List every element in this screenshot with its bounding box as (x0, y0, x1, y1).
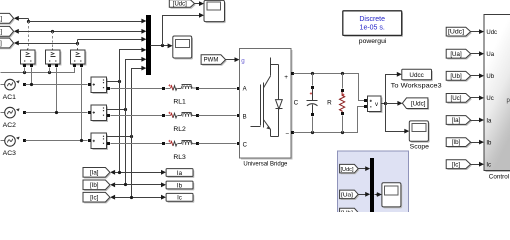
svg-text:[Ub]: [Ub] (341, 211, 354, 212)
goto tag [Ub] (left edge, clipped) (0, 26, 15, 37)
goto tag [Ib] (bottom) (83, 180, 111, 191)
from tag [Ia] (right column) (446, 116, 472, 126)
svg-text:powergui: powergui (359, 38, 387, 45)
from tag [Udc] (lavender) (340, 164, 360, 174)
svg-text:Ic: Ic (486, 163, 491, 169)
wire DC plus rail (294, 72, 365, 101)
to workspace Ia (166, 169, 194, 178)
from tag [Ua] (right column) (446, 49, 472, 59)
wire I2 signal output (107, 108, 128, 111)
goto tag [Ia] (bottom) (83, 168, 111, 179)
svg-text:PWM: PWM (204, 58, 219, 64)
series RL branch RL2 (111, 112, 241, 133)
svg-text:A: A (243, 87, 247, 93)
from tag [Ic] (right column) (446, 160, 472, 170)
powergui block (343, 11, 403, 45)
wire [Ia] to Control Ia (471, 118, 485, 123)
wire V1 plus to phase A (30, 68, 33, 87)
wire Ia vertical riser (120, 48, 147, 173)
svg-text:[Ua]: [Ua] (341, 192, 354, 198)
wire [Ib] to Control Ib (471, 140, 485, 145)
svg-text:[Ub]: [Ub] (0, 29, 2, 35)
annotation area (lavender) (338, 151, 409, 213)
svg-text:[Ub]: [Ub] (450, 73, 462, 80)
goto tag [Udc] (right) (402, 98, 429, 110)
AC voltage source AC1 (1, 79, 88, 101)
svg-text:Uc: Uc (486, 96, 493, 102)
from tag [Udc] (right column) (446, 27, 472, 37)
wire V3 plus to phase C (80, 68, 83, 143)
dashed measurement line V2 (52, 32, 54, 49)
to workspace Ic (166, 193, 194, 202)
dashed measurement line V3 (77, 44, 79, 49)
svg-text:g: g (241, 58, 245, 65)
from tag [Uc] (right column) (446, 94, 472, 104)
svg-text:AC2: AC2 (3, 122, 16, 129)
scope Scope1 (2 inputs) (204, 0, 226, 23)
svg-text:[Ia]: [Ia] (90, 169, 99, 176)
dashed measurement line V1 (28, 22, 30, 49)
scope Scope2 (173, 36, 193, 60)
svg-text:RL1: RL1 (173, 98, 186, 105)
svg-text:AC3: AC3 (3, 150, 16, 157)
svg-text:Universal Bridge: Universal Bridge (243, 160, 287, 167)
from tag PWM (201, 55, 227, 66)
wire V2 plus to phase B (55, 68, 58, 115)
wire I3 signal output (107, 135, 134, 138)
svg-text:[Ib]: [Ib] (452, 139, 461, 146)
svg-text:[Udc]: [Udc] (448, 29, 464, 36)
current measurement I1 (88, 77, 110, 94)
wire [Udc] to Scope1 (195, 1, 205, 6)
wire Ib vertical riser (126, 57, 147, 185)
current measurement I2 (88, 105, 110, 122)
wire mux output to scopes (151, 13, 205, 48)
svg-text:+: + (284, 74, 288, 81)
wire [Udc] to Control Udc (471, 29, 485, 34)
svg-text:Ia: Ia (486, 118, 492, 124)
wire Ia to goto and workspace (110, 170, 166, 175)
wire [Ua] to Control Ua (471, 51, 485, 56)
wire Ib to goto and workspace (110, 182, 166, 187)
capacitor C (294, 74, 318, 133)
wire [Udc] to mux2 (359, 166, 371, 171)
svg-text:[Uc]: [Uc] (0, 41, 2, 47)
wire Ub: measurement V2 output to goto [Ub] and mux (14, 29, 147, 34)
AC voltage source AC3 (1, 136, 88, 158)
svg-text:[Ia]: [Ia] (452, 117, 461, 124)
svg-text:C: C (294, 100, 299, 107)
svg-text:RL2: RL2 (173, 126, 186, 133)
subsystem Control (484, 14, 510, 180)
svg-text:Scope: Scope (410, 144, 429, 151)
svg-text:Ub: Ub (486, 74, 494, 80)
wire [Ic] to Control Ic (471, 162, 485, 167)
svg-text:p: p (507, 98, 510, 104)
scope (lavender) (382, 183, 402, 209)
goto tag [Ua] (left edge, clipped) (0, 13, 15, 24)
svg-text:Udc: Udc (486, 30, 497, 36)
svg-text:[Ib]: [Ib] (90, 182, 99, 189)
wire to To Workspace3 (386, 72, 402, 104)
svg-text:[Udc]: [Udc] (411, 100, 426, 107)
neutral wire (1, 68, 75, 75)
wire [Ua] to mux2 (359, 192, 371, 197)
scope Scope (Udc) (409, 121, 429, 151)
svg-text:[Ic]: [Ic] (452, 161, 461, 168)
svg-text:[Udc]: [Udc] (173, 2, 187, 8)
universal bridge (IGBT/diode) (240, 49, 295, 168)
wire V2 minus to neutral (49, 68, 51, 73)
svg-text:Control: Control (489, 174, 509, 181)
voltage measurement Udc (364, 96, 382, 113)
wire PWM to bridge gate (226, 57, 240, 62)
mux2 (370, 158, 374, 213)
from tag [Ub] (right column) (446, 71, 472, 81)
wire mux2 to scope (375, 192, 382, 197)
wire Ua: measurement V1 output to goto [Ua] and mux (14, 16, 147, 24)
svg-text:[Ua]: [Ua] (0, 16, 2, 22)
wire Udc measurement output (382, 102, 388, 105)
from tag [Ub] (lavender, clipped) (340, 208, 360, 218)
series RL branch RL1 (111, 84, 241, 105)
svg-text:[Ua]: [Ua] (450, 51, 462, 58)
goto tag [Ic] (bottom) (83, 192, 111, 203)
wire V1 minus to neutral (24, 68, 26, 73)
svg-text:R: R (327, 99, 332, 106)
voltage measurement V3 (71, 49, 87, 68)
from tag [Udc] (top) (169, 0, 195, 9)
svg-text:[Uc]: [Uc] (450, 95, 461, 102)
resistor R (327, 74, 345, 133)
wire to Scope (386, 104, 410, 134)
to workspace Udcc (391, 69, 443, 89)
voltage measurement V1 (21, 49, 37, 68)
wire I1 signal output (107, 80, 122, 83)
wire DC minus rail (294, 107, 365, 135)
svg-text:RL3: RL3 (173, 154, 186, 161)
mux (6 inputs) (146, 15, 151, 75)
wire [Uc] to Control Uc (471, 96, 485, 101)
svg-text:B: B (243, 114, 247, 120)
wire [Ub] to Control Ub (471, 73, 485, 78)
wire Ic to goto and workspace (110, 195, 166, 200)
to workspace Ib (166, 181, 194, 190)
AC voltage source AC2 (1, 107, 88, 129)
svg-text:1e-05 s.: 1e-05 s. (360, 25, 385, 32)
svg-text:To Workspace3: To Workspace3 (391, 83, 443, 90)
svg-text:−: − (285, 130, 289, 137)
wire Uc: measurement V3 output to goto [Uc] and mux (14, 37, 147, 46)
svg-text:Ia: Ia (177, 170, 183, 177)
wire Ic vertical riser (132, 66, 147, 198)
svg-text:Udcc: Udcc (409, 72, 423, 79)
svg-text:Ic: Ic (177, 195, 182, 202)
from tag [Ib] (right column) (446, 138, 472, 148)
goto tag [Uc] (left edge, clipped) (0, 38, 15, 49)
svg-text:[Udc]: [Udc] (341, 167, 354, 173)
wire to goto [Udc] (386, 101, 403, 106)
from tag [Ua] (lavender) (340, 190, 360, 200)
svg-text:C: C (243, 142, 248, 148)
svg-text:Ua: Ua (486, 52, 494, 58)
svg-text:Ib: Ib (486, 140, 492, 146)
series RL branch RL3 (111, 140, 241, 161)
svg-text:AC1: AC1 (3, 94, 16, 101)
voltage measurement V2 (46, 49, 62, 68)
current measurement I3 (88, 133, 110, 150)
svg-text:Ib: Ib (177, 182, 183, 189)
svg-text:[Ic]: [Ic] (90, 194, 99, 201)
svg-text:Discrete: Discrete (359, 16, 385, 23)
